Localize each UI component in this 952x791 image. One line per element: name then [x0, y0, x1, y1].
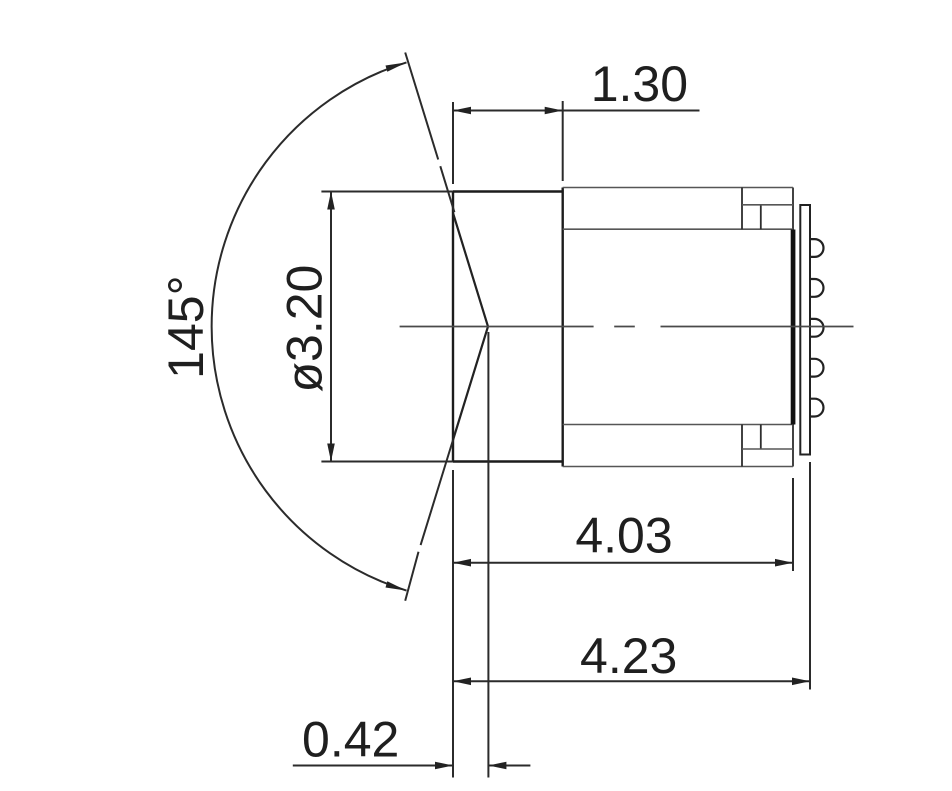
body rear face vertical — [792, 188, 794, 467]
svg-text:4.23: 4.23 — [580, 628, 677, 684]
top-right notch horizontal — [742, 204, 793, 206]
extension line at plate rear going down — [809, 462, 811, 690]
svg-text:145°: 145° — [158, 275, 214, 378]
dim 0.42 dimension line right tail — [488, 765, 530, 767]
dim 1.30 extension lines — [453, 101, 563, 184]
svg-text:1.30: 1.30 — [591, 56, 688, 112]
extension line at cone vertex going down — [487, 332, 489, 778]
thick interface line (rear mating face) — [791, 230, 796, 425]
chamfer cone edges (front taper) — [453, 213, 488, 440]
front cylinder outline (lens barrel front, ø3.20 section) — [453, 192, 563, 462]
dim 1.30 arrow right — [545, 107, 563, 115]
dim ø3.20 extension lines — [321, 192, 453, 462]
dim 0.42 arrow (points right at front face) — [435, 762, 453, 770]
dim ø3.20 dimension line — [330, 192, 332, 462]
pin 4 — [810, 359, 824, 377]
arc arrowhead bottom — [386, 581, 407, 590]
145 degree dimension arc — [212, 62, 407, 590]
pin 2 — [810, 279, 823, 297]
dim ø3.20 arrow up — [327, 192, 335, 210]
top-right notch step — [742, 188, 761, 230]
dim 1.30 arrow left — [453, 107, 471, 115]
main body step vertical — [562, 188, 564, 467]
extension line at body rear going down — [792, 478, 794, 571]
centerline (horizontal axis, dash-dot) — [400, 326, 854, 328]
body cap ring outer edges — [563, 188, 793, 467]
pin 5 — [810, 399, 823, 417]
pin 3 — [810, 319, 824, 337]
dim 4.03 dimension line — [453, 562, 793, 564]
dim 0.42 arrow (points left at vertex line) — [488, 762, 506, 770]
extension line at front face going down — [452, 470, 454, 778]
pin 1 — [810, 239, 824, 257]
bottom-right notch horizontal — [742, 448, 793, 450]
arc arrowhead top — [386, 62, 407, 71]
svg-text:4.03: 4.03 — [575, 507, 672, 563]
dim 4.03 arrow right — [775, 559, 793, 567]
upper angle extension dash-dot line — [405, 53, 454, 213]
dim 4.03 arrow left — [453, 559, 471, 567]
dim 0.42 dimension line left tail — [293, 765, 453, 767]
svg-text:ø3.20: ø3.20 — [276, 265, 332, 393]
dim 4.23 dimension line — [453, 680, 810, 682]
dim 4.23 arrow left — [453, 678, 471, 686]
bottom-right notch step — [742, 425, 761, 467]
dim ø3.20 arrow down — [327, 444, 335, 462]
dim 1.30 dimension line — [453, 110, 700, 112]
lower angle extension dash-dot line — [405, 440, 453, 601]
svg-text:0.42: 0.42 — [302, 711, 399, 767]
pin plate (rear connector strip) — [800, 205, 810, 455]
body cap ring inner lines — [563, 229, 793, 424]
dim 4.23 arrow right — [792, 678, 810, 686]
